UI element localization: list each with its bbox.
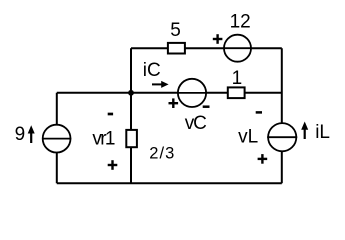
svg-text:iC: iC [143, 60, 161, 81]
arrow iL (up) [301, 122, 308, 140]
svg-text:iL: iL [315, 122, 330, 143]
minus of vC [203, 105, 210, 108]
svg-text:vL: vL [238, 127, 258, 148]
plus of vC [169, 98, 179, 108]
resistor vr1 [126, 130, 137, 147]
voltage source V12 circle [223, 35, 252, 62]
plus of vL [258, 154, 268, 164]
svg-text:2/3: 2/3 [149, 145, 175, 163]
svg-text:vC: vC [185, 113, 206, 134]
capacitor source vC circle [177, 79, 207, 107]
svg-text:vr1: vr1 [92, 129, 114, 150]
junction node dot [128, 90, 134, 96]
minus of vr1 [108, 113, 113, 116]
current source I1 9A circle [42, 125, 71, 153]
wire left vertical [56, 93, 58, 184]
arrow for source 9 (up) [28, 125, 35, 143]
arrow iC (right) [152, 81, 169, 88]
svg-text:9: 9 [15, 124, 26, 145]
resistor R5 [168, 43, 185, 54]
minus of vL [256, 111, 262, 114]
svg-text:1: 1 [232, 68, 243, 89]
inductor source vL circle [267, 123, 297, 151]
wire bottom rail [57, 182, 282, 184]
wire middle rail [57, 92, 282, 94]
resistor R1 [228, 87, 245, 98]
plus of V12 [213, 34, 223, 44]
wire middle vertical [130, 48, 132, 183]
wire right vertical [281, 48, 283, 183]
wire top: node between R5/V12 rail [131, 47, 282, 49]
svg-text:12: 12 [230, 12, 251, 33]
svg-text:5: 5 [170, 20, 181, 41]
plus of vr1 [108, 160, 118, 170]
